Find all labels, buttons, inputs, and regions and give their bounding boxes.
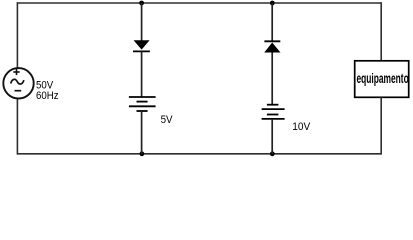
AC source plus sign (13, 69, 19, 75)
node junction dot bottom branch 2 (270, 151, 275, 156)
wire top rail (17, 2, 381, 4)
equipment box U1 (355, 61, 409, 98)
svg-text:10V: 10V (292, 121, 310, 133)
wire branch 1 upper (141, 3, 143, 41)
label 5V (161, 115, 173, 127)
wire diode D1 to battery B1 (141, 51, 143, 97)
battery B2 10V (262, 105, 285, 119)
node junction dot top branch 2 (270, 1, 275, 6)
wire right upper segment (380, 2, 382, 61)
wire branch 2 upper (271, 3, 273, 41)
AC source sine wave (11, 79, 24, 84)
svg-text:equipamento: equipamento (357, 72, 409, 87)
svg-text:60Hz: 60Hz (36, 91, 59, 103)
wire bottom rail (17, 153, 381, 155)
diode D2 (pointing up) (264, 41, 280, 52)
wire left upper segment (16, 2, 18, 68)
AC source minus sign (15, 90, 22, 92)
label equipamento (357, 72, 409, 87)
wire left lower segment (16, 98, 18, 154)
node junction dot bottom branch 1 (140, 151, 145, 156)
diode D1 (pointing down) (133, 40, 150, 51)
svg-text:5V: 5V (161, 115, 173, 127)
wire battery B1 to bottom rail (141, 111, 143, 154)
wire right lower segment (380, 97, 382, 154)
wire diode D2 to battery B2 (271, 53, 273, 105)
wire battery B2 to bottom rail (271, 119, 273, 154)
label 50V 60Hz (36, 80, 59, 102)
node junction dot top branch 1 (139, 1, 144, 6)
label 10V (292, 121, 310, 133)
battery B1 5V (129, 97, 156, 111)
AC source V1 circle (3, 68, 33, 98)
